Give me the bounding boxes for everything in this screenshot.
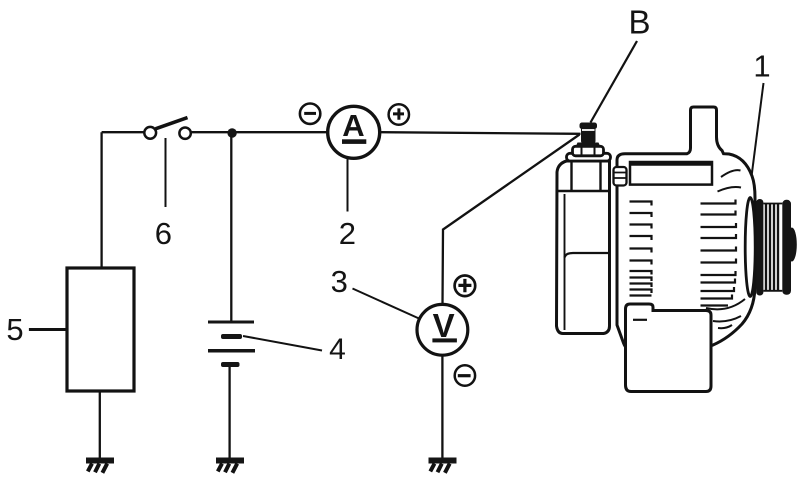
alternator pulley groove lines <box>766 204 778 291</box>
load box component 5 <box>67 268 134 391</box>
leader line to label 5 <box>29 328 67 331</box>
condenser shoulder line <box>557 190 609 192</box>
alternator pulley left flange <box>756 199 763 296</box>
alternator front cover rectangle <box>630 162 712 185</box>
svg-text:1: 1 <box>753 48 770 83</box>
alternator pulley rim edges <box>763 204 782 291</box>
svg-text:V: V <box>433 307 455 344</box>
wire junction down to battery <box>230 132 232 321</box>
wire voltmeter top to B terminal <box>443 135 580 305</box>
wire top-left horizontal segment <box>102 131 145 133</box>
alternator front cover top thick edge <box>630 162 712 166</box>
leader line to label 3 <box>353 289 420 319</box>
alternator shoulder contour lines <box>718 170 742 191</box>
B terminal stud <box>580 123 598 144</box>
switch SW lever arm <box>156 118 188 129</box>
wire ammeter to B terminal <box>380 132 581 134</box>
condenser top section lines <box>572 162 601 192</box>
alternator foot inner dash <box>633 319 647 321</box>
ground symbol below voltmeter <box>429 458 457 473</box>
voltmeter V3 circle <box>417 304 468 355</box>
svg-text:2: 2 <box>339 216 356 251</box>
wire load box to ground <box>99 391 101 458</box>
battery component 4 plate long top <box>208 321 254 324</box>
battery plate short 1 <box>221 334 242 339</box>
battery plate long bottom <box>208 349 255 353</box>
alternator right vent fins column <box>701 200 737 306</box>
alternator bottom-right contour lines <box>706 299 745 328</box>
battery plate short 2 <box>221 362 240 367</box>
alternator shaft end cap <box>787 228 797 262</box>
leader line to label 4 <box>243 336 322 351</box>
alternator left vent fins column <box>630 202 652 296</box>
ground symbol below battery <box>216 458 244 473</box>
alternator mounting foot <box>626 304 712 392</box>
svg-text:4: 4 <box>329 333 346 366</box>
svg-text:B: B <box>628 3 650 40</box>
leader line to label 2 <box>347 159 349 212</box>
alternator nose ring <box>745 198 755 297</box>
B terminal hex nut <box>573 146 604 156</box>
alternator condenser cylinder body <box>557 161 610 334</box>
alternator side clip detail <box>614 167 627 186</box>
leader line to label 1 <box>749 83 764 196</box>
ground symbol below load box <box>86 458 114 473</box>
leader line to label B <box>591 41 638 123</box>
condenser inner highlight line <box>564 194 566 330</box>
wire battery to ground <box>228 366 230 458</box>
switch SW contact circle left <box>144 127 156 139</box>
B terminal flange <box>567 153 611 161</box>
wire switch to junction to ammeter <box>191 131 328 133</box>
wire left vertical drop to load box <box>100 132 102 268</box>
switch SW contact circle right <box>179 128 190 139</box>
alternator pulley right flange <box>782 200 791 295</box>
B terminal nut facet lines <box>582 147 595 156</box>
alternator pulley white area <box>757 200 790 294</box>
ammeter polarity plus symbol <box>389 104 409 124</box>
svg-text:5: 5 <box>6 312 23 347</box>
junction node dot <box>227 128 236 137</box>
svg-text:A: A <box>342 108 364 143</box>
ammeter A2 circle <box>328 106 380 158</box>
ammeter polarity minus symbol <box>300 104 320 124</box>
voltmeter polarity minus symbol <box>455 365 475 385</box>
alternator 1 main body outline <box>617 107 755 352</box>
condenser mid divider line <box>565 253 610 258</box>
wire voltmeter bottom to ground <box>441 356 443 458</box>
svg-text:6: 6 <box>155 216 172 251</box>
B terminal collar <box>576 143 601 148</box>
leader line to label 6 <box>165 138 167 207</box>
svg-text:3: 3 <box>331 264 348 299</box>
ammeter letter underline <box>342 139 366 144</box>
voltmeter polarity plus symbol <box>455 276 476 297</box>
voltmeter letter underline <box>432 338 457 342</box>
